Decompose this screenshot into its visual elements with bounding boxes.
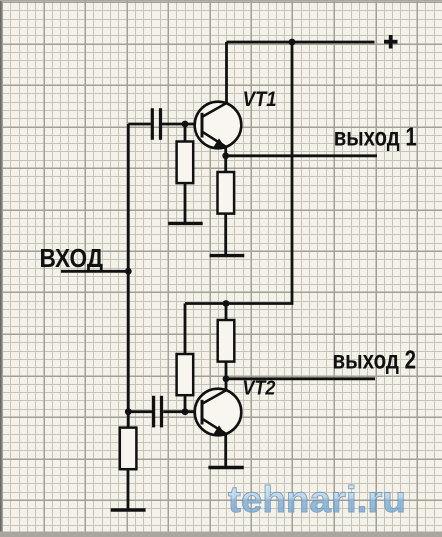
wire: VT2 collector stub: [225, 379, 228, 391]
transistor VT1: [195, 102, 242, 156]
wire: vertical from + rail down to VT2 supply branch: [185, 42, 292, 304]
resistor (VT2 collector load): [218, 320, 235, 362]
wire: bottom resistor lead to ground: [127, 469, 130, 510]
wire: C1 right lead to VT1 base node: [162, 123, 200, 126]
node: VT1 base: [182, 121, 189, 128]
+ symbol (supply): [384, 35, 398, 49]
node: input line at C2: [125, 408, 132, 415]
wire: C2 right lead to VT2 base node: [163, 410, 200, 413]
svg-text:выход 1: выход 1: [334, 121, 417, 151]
wire: VT1 collector riser: [225, 42, 228, 104]
wire: input stub (VHOD): [61, 270, 128, 273]
ground (VT1 base resistor): [168, 222, 203, 225]
wire: C1 left lead: [128, 123, 151, 126]
node: VT1 emitter / output 1: [222, 152, 229, 159]
svg-text:ВХОД: ВХОД: [40, 243, 104, 273]
capacitor C1 (input to VT1 base): [152, 108, 160, 140]
wire: input vertical line: [127, 124, 130, 429]
resistor (VT1 emitter load): [218, 172, 235, 214]
ground (bottom left resistor): [111, 508, 146, 511]
wire: C2 left lead: [128, 410, 152, 413]
resistor (VT2 base bias): [177, 354, 194, 395]
svg-text:VT1: VT1: [243, 88, 277, 111]
node: VT2 collector resistor top: [223, 300, 230, 307]
svg-text:tehnari.ru: tehnari.ru: [228, 479, 406, 520]
wire: VT1 emitter resistor leads: [224, 156, 227, 256]
wire: VT1 base resistor leads: [184, 124, 187, 223]
svg-text:выход 2: выход 2: [333, 345, 417, 375]
node: input (VHOD): [125, 268, 132, 275]
wire: VT2 collector resistor leads: [225, 304, 228, 379]
node: VT2 collector / output 2: [223, 375, 230, 382]
wire: output 1 line: [226, 154, 377, 157]
wire: VT2 base bias resistor leads: [184, 304, 187, 412]
wire: + supply rail: [227, 41, 375, 44]
svg-text:VT2: VT2: [242, 376, 276, 399]
ground (VT1 emitter resistor): [210, 254, 245, 257]
node: VT2 base: [182, 408, 189, 415]
ground (VT2 emitter): [208, 466, 243, 469]
resistor (VT1 base to ground): [177, 142, 194, 184]
transistor VT2: [195, 389, 242, 437]
node: + rail junction: [289, 39, 296, 46]
capacitor C2 (input to VT2 base): [154, 396, 162, 428]
wire: output 2 line: [226, 377, 375, 380]
wire: VT2 emitter lead down: [224, 435, 227, 468]
resistor (input, bottom left): [120, 428, 137, 470]
